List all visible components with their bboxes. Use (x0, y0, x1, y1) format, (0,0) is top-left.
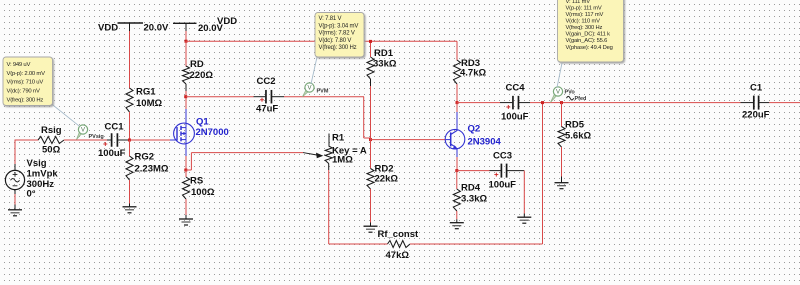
svg-text:1MΩ: 1MΩ (332, 155, 353, 166)
resistor RD2 (367, 169, 374, 190)
svg-text:RD5: RD5 (565, 120, 585, 131)
svg-text:Q2: Q2 (468, 124, 481, 135)
svg-text:V(rms): 7.82 V: V(rms): 7.82 V (319, 31, 355, 37)
svg-text:5.6kΩ: 5.6kΩ (565, 131, 591, 142)
junction drain node (184, 95, 187, 98)
svg-text:CC2: CC2 (257, 76, 276, 87)
svg-text:22kΩ: 22kΩ (375, 174, 399, 185)
wire Vsig bottom lead (14, 194, 16, 205)
svg-text:R1: R1 (332, 133, 345, 144)
svg-text:20.0V: 20.0V (144, 23, 169, 34)
capacitor CC2 (254, 96, 266, 98)
ground below RD2 (370, 223, 372, 227)
capacitor CC4 (500, 102, 512, 104)
capacitor CC1 (107, 139, 111, 141)
junction Q1 source node (184, 169, 187, 172)
wire collector node to Q2 (456, 103, 458, 112)
svg-text:0°: 0° (27, 189, 36, 200)
resistor RD1 (370, 41, 372, 57)
annotation box PVM measurements (315, 13, 364, 58)
wire collector node to CC4 (457, 102, 500, 104)
wire VDD junction to RD (185, 41, 187, 67)
wire Q1 source lead (185, 144, 187, 156)
wire drain node to CC2 (186, 96, 254, 98)
ground below RS (185, 215, 187, 219)
svg-text:2N3904: 2N3904 (468, 137, 502, 148)
svg-text:100uF: 100uF (489, 180, 517, 191)
svg-text:RD1: RD1 (374, 48, 394, 59)
svg-text:V(gain_AC): 55.6: V(gain_AC): 55.6 (566, 38, 608, 44)
svg-text:V(dc): 110 mV: V(dc): 110 mV (566, 19, 601, 25)
svg-text:RS: RS (190, 176, 203, 187)
wire gate node to Q1 gate (130, 139, 170, 141)
resistor RD (183, 66, 190, 84)
ground below RG2 (129, 204, 131, 207)
svg-text:100Ω: 100Ω (191, 187, 215, 198)
probe PVM (303, 90, 308, 97)
leader line to PVo annotation (557, 63, 562, 88)
svg-text:100uF: 100uF (501, 112, 529, 123)
wire RD2 to ground (370, 189, 372, 223)
leader line to PVsig annotation (51, 104, 80, 127)
leader line to PVM annotation (311, 57, 317, 84)
svg-text:RG2: RG2 (135, 152, 155, 163)
svg-text:V(freq): 300 Hz: V(freq): 300 Hz (566, 25, 603, 31)
svg-text:V(dc): 790 nV: V(dc): 790 nV (7, 89, 40, 95)
svg-text:CC4: CC4 (506, 83, 526, 94)
wire R1 bottom to feedback line (328, 170, 330, 244)
resistor RD5 (561, 103, 563, 127)
svg-text:CC3: CC3 (493, 151, 512, 162)
ground below RD5 (561, 177, 563, 183)
svg-text:2N7000: 2N7000 (196, 127, 229, 138)
svg-text:1mVpk: 1mVpk (27, 169, 59, 180)
junction emitter node (455, 169, 458, 172)
resistor RD3 (456, 41, 458, 60)
wire node down to RD2 (370, 140, 372, 169)
probe PVsig (77, 132, 82, 139)
transistor Q1 2N7000 MOSFET (174, 123, 195, 144)
svg-text:3.3kΩ: 3.3kΩ (461, 194, 487, 205)
svg-text:V: V (307, 86, 311, 92)
wire RS to ground (185, 199, 187, 215)
svg-text:V: 111 mV: V: 111 mV (566, 0, 591, 5)
wire C1 to right edge (769, 102, 800, 104)
probe Pfed icon (567, 96, 574, 100)
wire RG2 to ground (129, 180, 131, 204)
wire VDD2 to RD and node VDD bus (185, 31, 187, 41)
svg-text:V(p-p): 3.04 mV: V(p-p): 3.04 mV (319, 23, 359, 29)
svg-text:V: V (81, 128, 85, 134)
svg-text:PVo: PVo (565, 90, 576, 96)
svg-text:V(gain_DC): 411 k: V(gain_DC): 411 k (566, 32, 611, 38)
junction VDD bus at RD (185, 40, 188, 43)
svg-text:PVM: PVM (317, 88, 329, 94)
wire feedback to Rf_const (329, 243, 388, 245)
svg-text:47uF: 47uF (256, 104, 278, 115)
svg-text:CC1: CC1 (105, 122, 125, 133)
junction feedback tap (541, 101, 544, 104)
svg-text:Pfed: Pfed (575, 96, 587, 102)
svg-text:Rf_const: Rf_const (378, 229, 419, 240)
svg-text:Vsig: Vsig (27, 158, 47, 169)
resistor Rf_const (388, 241, 411, 248)
svg-text:V(phase): 49.4 Deg: V(phase): 49.4 Deg (566, 45, 613, 51)
junction gate bias node (128, 139, 131, 142)
capacitor C1 (741, 102, 754, 104)
wire gate node down to RG2 (129, 140, 131, 157)
wire emitter node to CC3 (457, 170, 490, 172)
svg-text:RG1: RG1 (136, 87, 156, 98)
svg-text:RD: RD (190, 59, 204, 70)
svg-text:10MΩ: 10MΩ (136, 98, 162, 109)
capacitor CC3 (490, 170, 501, 172)
svg-text:V: V (556, 90, 560, 96)
svg-text:220Ω: 220Ω (190, 70, 214, 81)
wire RD4 to ground (456, 211, 458, 219)
transistor Q2 2N3904 BJT (445, 129, 465, 157)
svg-text:C1: C1 (750, 83, 763, 94)
svg-text:PVsig: PVsig (89, 134, 104, 140)
svg-text:Rsig: Rsig (41, 125, 62, 136)
junction collector node (456, 101, 459, 104)
svg-text:V(freq): 300 Hz: V(freq): 300 Hz (319, 45, 357, 51)
resistor RD4 (453, 189, 460, 211)
wire emitter node to RD4 (456, 171, 458, 189)
svg-text:RD4: RD4 (461, 183, 481, 194)
svg-text:V(freq): 300 Hz: V(freq): 300 Hz (7, 97, 44, 103)
resistor RG2 (126, 156, 133, 180)
wire VDD bus horizontal (186, 40, 457, 42)
svg-text:V: 949 uV: V: 949 uV (7, 62, 31, 68)
wire RD5 to ground (561, 147, 563, 177)
junction RD5 tap (560, 101, 563, 104)
svg-text:100uF: 100uF (98, 148, 126, 159)
ground below CC3 (523, 214, 525, 218)
wire CC2 to PVM node (284, 96, 364, 98)
wire Rsig to CC1 (64, 139, 107, 141)
resistor RG1 (126, 88, 133, 112)
annotation box PVsig measurements (3, 57, 53, 106)
svg-text:2.23MΩ: 2.23MΩ (135, 164, 169, 175)
wire VDD1 to RG1 (129, 31, 131, 89)
wire CC3 to ground (523, 171, 525, 214)
wire RD1 bottom to node (370, 79, 372, 86)
svg-text:V(rms): 710 uV: V(rms): 710 uV (7, 80, 44, 86)
svg-text:V: 7.81 V: V: 7.81 V (319, 16, 342, 22)
svg-text:Q1: Q1 (196, 117, 209, 128)
wire RD3 to collector node (456, 84, 458, 103)
wire output line (530, 102, 741, 104)
ground below RD4 (456, 219, 458, 222)
svg-text:V(p-p): 2.00 mV: V(p-p): 2.00 mV (7, 71, 46, 77)
svg-text:33kΩ: 33kΩ (373, 59, 397, 70)
wire node to Q2 base (371, 139, 447, 141)
wire PVM node down to R1/RD1 node (363, 97, 365, 138)
annotation box PVo measurements (558, 0, 624, 62)
svg-text:4.7kΩ: 4.7kΩ (460, 68, 486, 79)
wire Q2 emitter lead (456, 157, 458, 171)
power VDD rail 1 (118, 22, 144, 24)
resistor Rsig (38, 137, 64, 144)
wire Rf_const to output node (410, 243, 543, 245)
svg-text:47kΩ: 47kΩ (386, 250, 410, 261)
wire RG1 to gate node (129, 112, 131, 140)
svg-text:220uF: 220uF (742, 110, 770, 121)
potentiometer R1 1M (303, 134, 332, 171)
svg-text:V(rms): 117 mV: V(rms): 117 mV (566, 12, 604, 18)
svg-text:V(dc): 7.80 V: V(dc): 7.80 V (319, 38, 352, 44)
resistor RS (185, 170, 187, 177)
wire R1 wiper to Q1 source node (191, 152, 303, 154)
ground below Vsig (14, 205, 16, 210)
wire Vsig top lead to Rsig (14, 141, 16, 166)
wire RD bottom to drain node (185, 84, 187, 91)
svg-text:V(p-p): 111 mV: V(p-p): 111 mV (566, 5, 602, 11)
svg-text:50Ω: 50Ω (42, 145, 61, 156)
wire source node jog to wiper (186, 169, 192, 171)
svg-text:VDD: VDD (98, 23, 118, 34)
wire Q1 drain lead (185, 109, 187, 123)
probe PVo (551, 94, 557, 102)
svg-text:20.0V: 20.0V (198, 23, 223, 34)
AC source Vsig (5, 164, 24, 194)
power VDD rail 2 (173, 22, 197, 24)
junction R1/RD1/RD2/Q2-base node (369, 138, 372, 141)
